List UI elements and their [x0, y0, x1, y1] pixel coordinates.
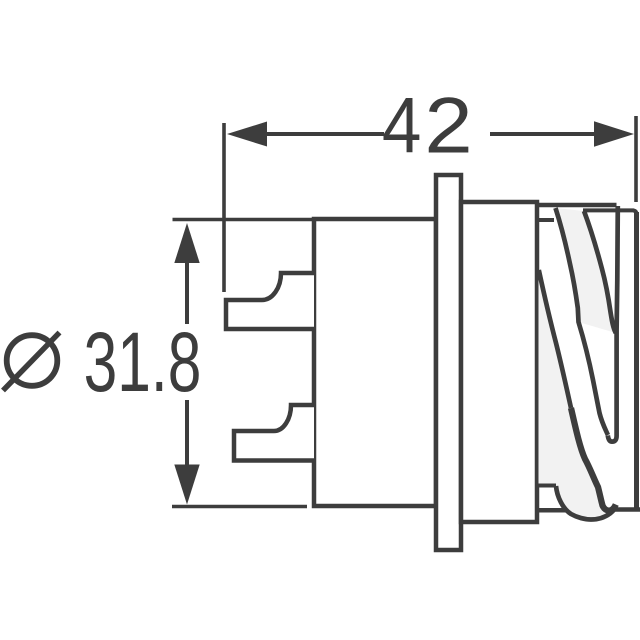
extension line bottom for diameter: [172, 505, 307, 509]
cap skirt diagonal lower thick part: [571, 408, 616, 511]
cap right corner edge: [608, 206, 618, 442]
swoosh left edge stroke with kink: [556, 208, 608, 435]
cap swoosh upper band fill: [556, 208, 616, 333]
diameter symbol: [3, 333, 60, 391]
svg-text:4: 4: [382, 81, 422, 169]
cap front face bottom edge: [615, 507, 640, 512]
cap skirt diagonal stroke: [539, 270, 571, 408]
arrowhead up of diameter dimension: [174, 223, 199, 263]
cap top edge: [539, 203, 617, 208]
extension line top for diameter: [173, 218, 313, 222]
cap bottom-left step: [538, 484, 556, 488]
foot bottom stroke: [556, 486, 614, 520]
vertical dimension line upper segment: [185, 260, 189, 324]
bezel: [461, 202, 537, 522]
vertical dimension line lower segment: [185, 400, 189, 467]
upper keyway tab: [226, 273, 314, 329]
svg-text:2: 2: [424, 81, 472, 169]
arrowhead right of 42 dimension: [594, 121, 634, 146]
cap front face right edge: [634, 212, 639, 510]
cap skirt bottom line: [537, 508, 566, 513]
dimension text 42: [382, 81, 473, 170]
mounting flange: [436, 175, 461, 550]
arrowhead down of diameter dimension: [174, 465, 199, 505]
swoosh right edge stroke: [584, 211, 616, 333]
lower keyway tab: [234, 405, 314, 461]
cap left band and foot fill: [539, 270, 614, 520]
cap top step line: [583, 210, 636, 213]
extension line left for 42: [222, 123, 226, 292]
arrowhead left of 42 dimension: [227, 122, 267, 147]
extension line right for 42: [634, 116, 638, 202]
cap top-left step: [538, 218, 554, 222]
svg-text:31.8: 31.8: [84, 315, 202, 409]
dimension line 42 right segment: [490, 132, 596, 136]
switch body: [314, 219, 436, 506]
dimension text 31.8: [84, 315, 202, 409]
dimension line 42 left segment: [265, 132, 384, 136]
